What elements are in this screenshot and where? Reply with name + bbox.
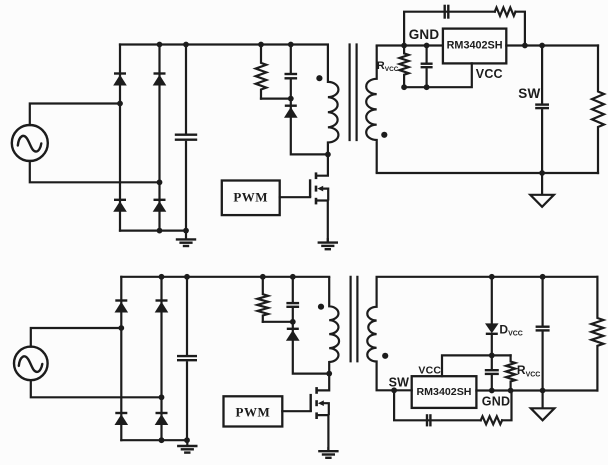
- node out-rail2/DVCC: [489, 274, 495, 280]
- node top-rail/R1: [258, 42, 264, 48]
- capacitor VCC bypass 1: [421, 46, 433, 88]
- node snubber junction: [288, 96, 294, 102]
- node top-rail2/C5: [184, 274, 190, 280]
- svg-text:DVCC: DVCC: [499, 322, 522, 337]
- svg-text:RVCC: RVCC: [377, 60, 399, 73]
- wire VCC1: [404, 63, 472, 87]
- diode D5 snubber clamp: [284, 106, 298, 118]
- label GND pin 1: [409, 27, 440, 42]
- node gnd-rail2/RVCC2: [508, 388, 514, 394]
- label RVCC2: [517, 363, 540, 378]
- diode D3: [113, 200, 127, 212]
- wire T1 core line 2: [356, 45, 358, 141]
- capacitor feedback C3: [445, 5, 449, 19]
- diode D7: [155, 301, 169, 313]
- svg-text:RVCC: RVCC: [517, 363, 540, 378]
- node bottom-rail2/right-leg: [159, 437, 165, 443]
- wire T1 core line 1: [349, 45, 351, 141]
- node out-rail/feedback1: [522, 43, 528, 49]
- resistor RVCC1: [400, 46, 409, 88]
- ground (output 1): [530, 173, 554, 207]
- wire V1 bottom lead: [30, 161, 160, 182]
- wire R1 to C2: [261, 97, 291, 99]
- wire snubber diode branch: [291, 99, 328, 155]
- node bottom-rail/C1: [183, 228, 189, 234]
- wire bridge2 right leg: [160, 277, 162, 440]
- svg-text:SW: SW: [389, 376, 410, 390]
- transistor Q1 (MOSFET): [310, 154, 328, 242]
- wire bridge1 top rail: [120, 43, 328, 45]
- node top-rail/right-leg: [157, 42, 163, 48]
- label PWM 2: [236, 404, 271, 419]
- wire bridge2 left leg: [120, 277, 122, 440]
- svg-text:GND: GND: [409, 27, 440, 42]
- wire VCC2 to RVCC2: [492, 354, 511, 356]
- label RVCC1: [377, 60, 399, 73]
- transistor Q2 (MOSFET): [311, 374, 330, 451]
- capacitor output 2: [536, 277, 550, 391]
- resistor RVCC2: [506, 355, 515, 390]
- node top-rail2/R4: [260, 274, 266, 280]
- PWM controller box 1: [222, 181, 280, 216]
- label VCC 2: [418, 365, 441, 377]
- node gnd-rail2/Cout2: [540, 388, 546, 394]
- wire snubber2 diode branch: [293, 322, 329, 374]
- wire bridge1 bottom rail: [120, 230, 186, 232]
- label SW 2: [389, 376, 410, 390]
- svg-text:VCC: VCC: [476, 67, 503, 81]
- wire GND rail 2: [476, 389, 597, 391]
- wire DVCC branch mid: [491, 334, 493, 355]
- node AC1-right-leg junction: [157, 179, 163, 185]
- node bottom-rail/right-leg: [157, 228, 163, 234]
- wire DVCC branch top: [491, 277, 493, 324]
- node T2 secondary phase dot: [382, 353, 388, 359]
- wire T2 secondary to SW pin: [377, 389, 412, 391]
- node VCC2: [489, 353, 495, 359]
- diode D6: [115, 301, 129, 313]
- node gnd-rail2/Cvcc2: [489, 388, 495, 394]
- label SW 1: [518, 86, 540, 101]
- diode D10 snubber clamp: [286, 329, 300, 341]
- wire bottom rail 1: [377, 172, 598, 174]
- node T1 secondary phase dot: [381, 132, 387, 138]
- wire output rail 1: [506, 44, 598, 46]
- AC source V2: [14, 347, 48, 381]
- resistor snubber R4: [257, 277, 268, 322]
- wire feedback1 right: [516, 12, 525, 46]
- transformer T2 primary winding: [329, 277, 339, 374]
- resistor load 2: [591, 277, 603, 391]
- wire bridge1 right leg: [158, 45, 160, 231]
- node bottom-rail2/C5: [184, 437, 190, 443]
- label DVCC: [499, 322, 522, 337]
- AC source V1: [12, 125, 48, 161]
- wire secondary1 top rail: [377, 44, 443, 46]
- capacitor feedback C7: [427, 414, 430, 426]
- wire feedback2 left: [394, 390, 481, 420]
- node top-rail/C1: [183, 42, 189, 48]
- resistor feedback R5: [481, 416, 502, 424]
- node AC2-right-leg junction: [159, 394, 165, 400]
- node bottom-rail/Csw: [539, 170, 545, 176]
- node snubber2 junction: [290, 319, 296, 325]
- wire VCC2 pin: [442, 355, 492, 376]
- svg-text:GND: GND: [482, 394, 510, 408]
- resistor load 1: [592, 46, 604, 174]
- wire V1 top lead: [30, 104, 120, 126]
- capacitor C2 snubber: [285, 45, 298, 99]
- node rail/RVCC1: [401, 43, 407, 49]
- op-amp U1 RM3402SH: [443, 29, 506, 64]
- wire V2 top lead: [31, 328, 122, 347]
- diode D1: [113, 74, 127, 86]
- label GND pin 2: [482, 394, 510, 408]
- wire R4 to C6: [263, 321, 293, 323]
- node SW2: [391, 387, 397, 393]
- capacitor C6 snubber: [286, 277, 299, 322]
- node top-rail/C2: [288, 42, 294, 48]
- svg-text:PWM: PWM: [233, 190, 268, 205]
- node rail/Cvcc1: [424, 43, 430, 49]
- label RM3402SH 2: [417, 386, 472, 398]
- diode D4: [153, 200, 167, 212]
- label PWM 1: [233, 190, 268, 205]
- transformer T2 secondary winding: [367, 277, 376, 391]
- transformer T1 primary winding: [328, 45, 339, 155]
- label VCC 1: [476, 67, 503, 81]
- diode D2: [153, 74, 167, 86]
- diode D8: [115, 413, 129, 425]
- node top-rail2/right-leg: [159, 274, 165, 280]
- wire bridge2 top rail: [121, 276, 329, 278]
- node vcc1/Cvcc1: [424, 84, 430, 90]
- op-amp U2 RM3402SH: [412, 376, 477, 408]
- wire feedback1 left: [404, 12, 495, 46]
- diode D9: [155, 413, 169, 425]
- node primary-bottom: [325, 152, 331, 158]
- wire T2 core line 1: [350, 277, 352, 362]
- wire bridge2 bottom rail: [121, 439, 187, 441]
- resistor feedback R2: [495, 8, 516, 16]
- capacitor C1 bulk: [175, 45, 197, 231]
- label RM3402SH 1: [447, 40, 503, 52]
- node AC2-left-leg junction: [118, 325, 124, 331]
- svg-text:RM3402SH: RM3402SH: [417, 386, 472, 398]
- wire V2 bottom lead: [31, 380, 162, 397]
- wire feedback2 right: [502, 391, 511, 421]
- node T1 primary phase dot: [316, 75, 322, 81]
- node top-rail2/C6: [290, 274, 296, 280]
- resistor snubber R1: [256, 45, 267, 99]
- PWM controller box 2: [224, 396, 283, 426]
- svg-text:PWM: PWM: [236, 404, 271, 419]
- capacitor C5 bulk: [177, 277, 197, 440]
- ground (Q2 source): [318, 447, 338, 458]
- wire PWM2 gate: [282, 410, 310, 412]
- wire bridge1 left leg: [119, 45, 121, 231]
- node primary2-bottom: [326, 371, 332, 377]
- wire PWM1 gate: [280, 196, 310, 198]
- node vcc1/RVCC1: [401, 84, 407, 90]
- capacitor SW output 1: [535, 46, 549, 174]
- svg-text:RM3402SH: RM3402SH: [447, 40, 503, 52]
- capacitor VCC bypass 2: [485, 355, 499, 390]
- ground (C1): [176, 231, 196, 246]
- wire output rail 2: [377, 276, 598, 278]
- ground (Q1 source): [318, 238, 338, 249]
- node out-rail/Csw: [539, 43, 545, 49]
- svg-text:SW: SW: [518, 86, 540, 101]
- wire T2 core line 2: [356, 277, 358, 362]
- node T2 primary phase dot: [318, 304, 324, 310]
- transformer T1 secondary winding: [366, 46, 376, 174]
- svg-text:VCC: VCC: [418, 365, 441, 377]
- diode DVCC: [485, 323, 499, 333]
- ground (C5): [177, 440, 197, 452]
- node AC1-left-leg junction: [117, 101, 123, 107]
- ground (output 2): [531, 391, 555, 421]
- node out-rail2/Cout2: [540, 274, 546, 280]
